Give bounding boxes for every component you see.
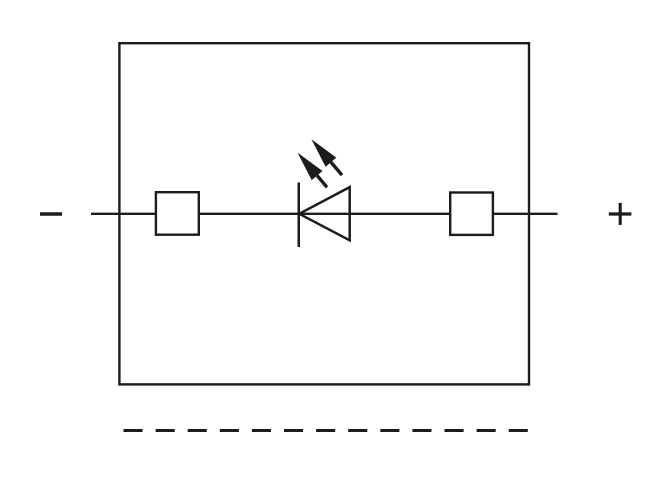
LED D1 triangle [299, 187, 350, 240]
LED emission arrow 1 (lower) tail [317, 176, 327, 188]
terminal block housing outline [119, 43, 529, 384]
LED emission arrow 2 (upper) tail [331, 162, 342, 175]
clamp terminal square (right) [450, 193, 493, 235]
minus polarity label (left) [40, 212, 62, 215]
wire (main horizontal conductor) [91, 213, 558, 215]
clamp terminal square (left) [156, 192, 199, 235]
dashed mounting-rail line [124, 429, 529, 432]
plus polarity label (right) [609, 212, 632, 215]
LED emission arrow 1 (lower) head [298, 153, 323, 181]
LED emission arrow 2 (upper) head [311, 139, 336, 167]
LED D1 cathode bar [298, 183, 301, 248]
